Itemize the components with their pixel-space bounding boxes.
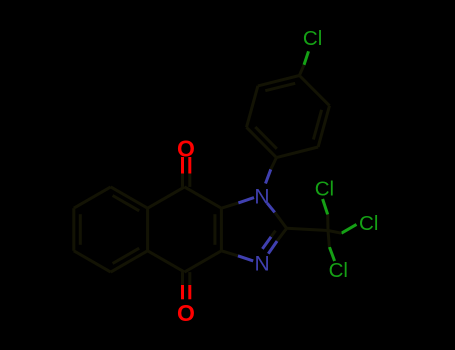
svg-text:N: N <box>254 185 269 208</box>
svg-text:N: N <box>255 252 270 275</box>
svg-text:O: O <box>177 135 195 161</box>
svg-text:Cl: Cl <box>315 177 334 200</box>
svg-text:O: O <box>177 300 195 326</box>
svg-text:Cl: Cl <box>329 259 348 282</box>
svg-text:Cl: Cl <box>359 212 378 235</box>
svg-text:Cl: Cl <box>303 27 322 50</box>
